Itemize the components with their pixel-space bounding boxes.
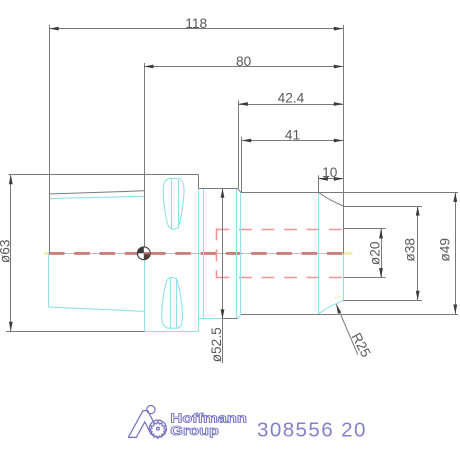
dim o63 line + extensions bbox=[10, 175, 12, 332]
svg-text:Group: Group bbox=[170, 423, 219, 438]
node slot bottom oval inner lines bbox=[170, 278, 172, 328]
wire cyan step bottom vertical bbox=[198, 319, 200, 331]
wire cyan taper slant top bbox=[49, 196, 144, 198]
node body o52.5 bottom edge right part bbox=[223, 318, 238, 320]
node center mark circle bbox=[137, 247, 150, 260]
svg-text:ø38: ø38 bbox=[402, 238, 417, 262]
node slot top oval inner lines bbox=[171, 179, 173, 228]
svg-text:10: 10 bbox=[322, 165, 338, 180]
dim R25 leader + text bbox=[336, 304, 358, 354]
node bore-ro20 hidden outline left bbox=[216, 228, 218, 278]
wire cyan vertical x240.4 bbox=[240, 193, 242, 315]
svg-text:R25: R25 bbox=[349, 330, 374, 360]
logo hoffmann icon bbox=[128, 406, 166, 439]
svg-text:80: 80 bbox=[236, 54, 252, 69]
wire centerline yellow start dash bbox=[44, 252, 49, 255]
dim 118 line bbox=[49, 28, 343, 30]
dim o20 line + extensions bbox=[381, 229, 383, 278]
node bore-ro20 hidden outline bottom bbox=[216, 277, 343, 279]
dim 10 line + extension bbox=[318, 178, 343, 180]
node body step at x198 bbox=[198, 175, 200, 189]
svg-text:ø63: ø63 bbox=[0, 239, 13, 263]
wire cyan vertical x144 lower bbox=[144, 260, 146, 331]
svg-text:ø52.5: ø52.5 bbox=[209, 327, 224, 362]
wire centerline thin gray bbox=[44, 253, 352, 255]
node body vertical x144 + 80 dim extension bbox=[144, 63, 146, 247]
svg-text:42.4: 42.4 bbox=[278, 91, 305, 106]
node body flange bottom edge + o63 extension bbox=[6, 331, 144, 333]
node body flange top edge bbox=[49, 174, 198, 176]
node slot bottom oval outer bbox=[162, 277, 183, 328]
wire cyan vertical x236.9 bbox=[236, 188, 238, 318]
svg-text:ø20: ø20 bbox=[367, 241, 382, 265]
node body top chamfer bbox=[238, 188, 241, 192]
node bore-ro20 hidden outline top bbox=[216, 229, 343, 231]
wire cyan flange bottom edge bbox=[144, 331, 198, 333]
svg-text:118: 118 bbox=[185, 16, 207, 31]
wire cyan taper slant bottom bbox=[49, 307, 144, 311]
wire cyan vertical x198.4 bbox=[198, 189, 200, 319]
svg-text:308556 20: 308556 20 bbox=[257, 419, 366, 442]
wire cyan o52.5 bottom edge left part bbox=[198, 318, 222, 320]
node body right face + dims extension bbox=[343, 25, 345, 253]
node slot top oval outer bbox=[163, 178, 184, 229]
wire cyan vertical x318.4 bbox=[318, 193, 320, 314]
wire cyan vertical x203.4 bbox=[203, 188, 205, 319]
wire centerline salmon dashes bbox=[49, 252, 343, 255]
wire cyan right face lower bbox=[343, 254, 345, 301]
node body o49 top edge + o49 dim extension bbox=[241, 192, 458, 194]
dim 42.4 line + extension bbox=[238, 104, 343, 106]
node body R25 top arc bbox=[318, 192, 343, 206]
node body o49 bottom edge + o49 dim extension bbox=[241, 314, 458, 316]
svg-text:ø49: ø49 bbox=[437, 238, 452, 262]
dim o49 line bbox=[455, 192, 457, 314]
node body left face + 118 extension bbox=[49, 25, 51, 253]
wire centerline yellow end dash bbox=[344, 252, 353, 255]
node body o52.5 top edge bbox=[198, 188, 237, 190]
dim o52.5 line bbox=[222, 188, 224, 363]
wire cyan bottom R25 arc bbox=[318, 300, 343, 314]
wire cyan left face lower bbox=[48, 253, 50, 307]
wire yellow small dash near bottom arc bbox=[334, 297, 341, 299]
node body taper slant top (dark) bbox=[49, 191, 144, 194]
svg-text:41: 41 bbox=[285, 128, 300, 143]
dim o38 line + extensions bbox=[417, 206, 419, 300]
dim 41 line + extension bbox=[242, 140, 344, 142]
dim 80 line bbox=[144, 66, 343, 68]
wire cyan bottom chamfer bbox=[238, 314, 241, 319]
